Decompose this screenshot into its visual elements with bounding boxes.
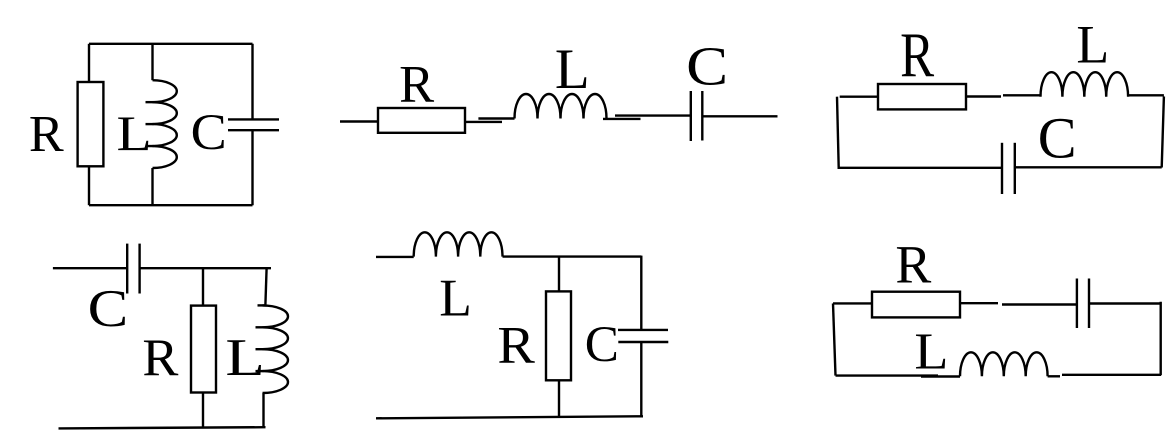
svg-text:R: R [900, 19, 934, 90]
svg-text:L: L [117, 106, 152, 161]
svg-text:C: C [88, 278, 129, 338]
svg-text:R: R [29, 105, 64, 163]
svg-text:L: L [225, 327, 265, 387]
svg-text:L: L [1076, 15, 1109, 75]
svg-text:L: L [439, 268, 472, 328]
svg-text:R: R [399, 55, 434, 113]
svg-text:C: C [585, 316, 619, 373]
svg-text:L: L [914, 323, 948, 381]
svg-text:C: C [686, 35, 728, 96]
svg-text:R: R [895, 235, 931, 295]
svg-text:C: C [1038, 105, 1077, 170]
svg-text:R: R [497, 317, 535, 375]
svg-text:R: R [142, 327, 178, 387]
svg-text:C: C [191, 104, 227, 160]
svg-text:L: L [555, 38, 590, 101]
